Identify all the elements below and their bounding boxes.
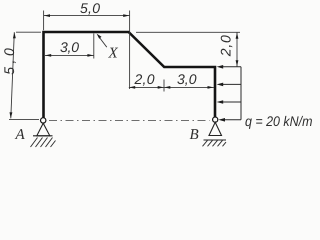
dimension 5,0 top: left extension line [43,11,45,31]
centerline A-B (dash-dot) [49,120,210,122]
dimension 5,0 left: top arrowhead [13,32,16,38]
bottom chain: middle arrowheads [158,86,164,89]
bottom chain: middle tick [163,80,165,92]
dimension 5,0 top: left arrowhead [44,14,50,17]
dimension 2,0 right: top extension line [136,31,240,33]
dimension 5,0 top: dimension line [44,15,130,17]
load arrow 4 (bottom) [224,119,241,121]
bottom chain dimensions 2,0 and 3,0: dimension line [129,86,214,88]
svg-text:3,0: 3,0 [60,39,79,55]
dimension 5,0 left: dimension line [11,32,15,118]
svg-text:2,0: 2,0 [134,71,155,87]
frame members (columns, top chord, diagonal, mid chord) [44,32,216,118]
bottom chain: right arrowhead at column [208,86,214,89]
dimension 3,0 top: right arrowhead [87,54,93,57]
dimension 5,0 top: right arrowhead [123,14,129,17]
support B: triangle [209,122,222,135]
dimension extension line right of corner (shared by top 5,0 and bottom 2,0) [129,11,131,90]
dimension 5,0 left: top extension line [16,31,41,33]
load arrow 3 [223,101,242,103]
svg-text:2,0: 2,0 [218,35,234,57]
support B: pin circle [213,117,218,122]
svg-text:3,0: 3,0 [177,71,197,87]
distributed load q: vertical line [240,67,242,120]
load arrow 1 (top) [223,66,242,68]
dimension 2,0 right: dimension line [236,32,238,66]
dimension 3,0 top: right extension line from chord [93,34,95,59]
dimension 3,0 top: left arrowhead [45,54,51,57]
dimension 5,0 left: bottom arrowhead [10,112,13,118]
dimension 3,0 top: dimension line [45,54,94,56]
support B: ground line [204,139,227,141]
svg-text:5,0: 5,0 [1,48,17,75]
svg-text:q = 20 kN/m: q = 20 kN/m [245,113,313,129]
dimension 2,0 right: top arrowhead [236,33,239,39]
support A: base line [33,135,53,137]
section point X: leader line [99,36,107,47]
svg-text:5,0: 5,0 [80,0,100,16]
load arrow 2 [223,83,242,85]
dimension 5,0 left: bottom extension line [9,119,39,121]
svg-text:X: X [108,46,119,62]
section point X: leader arrowhead [97,34,102,39]
support A: triangle [37,123,50,136]
svg-text:B: B [190,127,199,143]
svg-text:A: A [15,127,26,143]
support A: pin circle [41,118,46,123]
bottom chain: left arrowhead [129,86,135,89]
support A: ground hatching [31,138,56,148]
dimension 2,0 right: bottom arrowhead [236,60,239,66]
support B: ground hatching [203,140,227,146]
